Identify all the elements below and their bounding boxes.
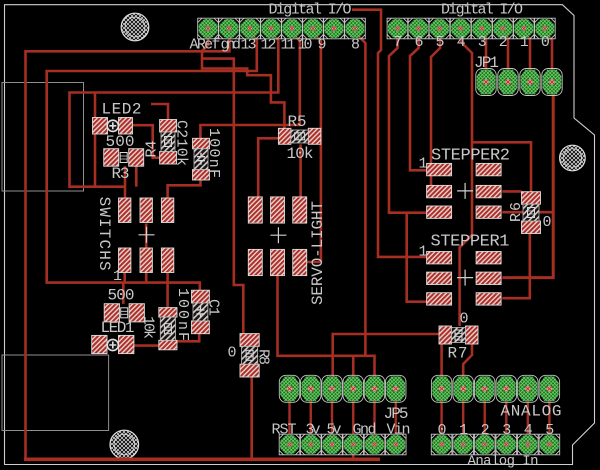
wire ANALOG col 4 upper-lower [505, 400, 507, 434]
resistor R3 [104, 149, 144, 167]
svg-text:11: 11 [281, 37, 296, 54]
svg-text:STEPPER1: STEPPER1 [431, 233, 510, 252]
wire pad1 to JP1-3 [524, 33, 530, 70]
pad analog A0 lower [431, 434, 452, 455]
svg-text:5: 5 [545, 422, 554, 439]
wire R5 padR to servo r1c3 [299, 144, 302, 197]
pad analog A5 lower [539, 434, 560, 455]
wire JP5 col 2 upper-lower [310, 400, 312, 434]
pad JP5 Gnd1 upper [343, 375, 363, 402]
servo-light JP pads [248, 197, 306, 276]
wire branch via LED2 pad [94, 93, 97, 187]
svg-text:12: 12 [261, 37, 277, 54]
pad digital 1 [514, 18, 535, 39]
svg-text:R4: R4 [144, 141, 161, 158]
svg-text:C1: C1 [205, 299, 222, 316]
svg-text:3: 3 [502, 422, 511, 439]
svg-text:LED2: LED2 [102, 101, 142, 119]
pad analog A4 upper [518, 375, 538, 402]
wire JP5 col 4 upper-lower [352, 400, 354, 434]
pad JP5 Vin upper [386, 375, 406, 402]
stepper2 origin cross [457, 183, 473, 199]
wire JP5 col 1 upper-lower [288, 400, 290, 434]
pad digital 3 [471, 18, 492, 39]
svg-text:1: 1 [419, 156, 428, 173]
switches SW pads [119, 198, 174, 273]
svg-text:ARef: ARef [190, 37, 221, 54]
pad digital 6 [408, 18, 429, 39]
svg-text:9: 9 [318, 37, 327, 54]
mounting hole right [560, 145, 586, 171]
wire pad4 center column to R7 [460, 33, 472, 326]
pad analog A1 lower [453, 434, 474, 455]
wire switch c2 vertical [145, 224, 148, 249]
wire R5 padL to servo r1c1 [258, 138, 278, 197]
pad analog A3 lower [496, 434, 517, 455]
svg-text:SWITCHS: SWITCHS [95, 197, 113, 271]
wire LED1 to 10k bottom [134, 344, 159, 347]
resistor R6 [522, 192, 541, 234]
pad ARef [198, 18, 219, 39]
svg-text:RST: RST [272, 422, 297, 439]
wire switch r2c3 to 10k top [166, 272, 169, 308]
svg-text:1: 1 [520, 34, 529, 51]
pad analog A2 lower [474, 434, 495, 455]
svg-text:2: 2 [481, 422, 490, 439]
wire ANALOG col 5 upper-lower [527, 400, 529, 434]
pad JP5 Vin lower [385, 434, 406, 455]
pad 12 [261, 18, 282, 39]
power jack outline [2, 83, 84, 192]
wire pad7 to stepper2 r3 [389, 33, 427, 213]
pad JP5 5v upper [322, 375, 342, 402]
pad JP5 Gnd1 lower [343, 434, 364, 455]
pad analog A2 upper [475, 375, 495, 402]
pad analog A5 upper [539, 375, 559, 402]
wire R7 padL to analog0 [440, 343, 443, 402]
wire branch to R6 top [472, 142, 531, 191]
wire pad11 to C2 top [200, 33, 299, 138]
svg-text:500: 500 [106, 133, 135, 151]
mounting hole bottom-left [110, 430, 139, 459]
wire pad12 loop to switch [70, 33, 279, 187]
pad analog A1 upper [453, 375, 473, 402]
svg-text:3v: 3v [306, 422, 321, 439]
svg-text:ANALOG: ANALOG [501, 403, 562, 421]
pad digital 0 [535, 18, 556, 39]
wire staircase branch to R8 top [202, 59, 243, 334]
pad 11 [282, 18, 303, 39]
pad JP1-3 [520, 69, 540, 96]
svg-text:4: 4 [457, 34, 466, 51]
wire pad8 long vertical [355, 33, 365, 356]
wire top edge trace to stepper1 r1 [352, 10, 427, 257]
pad 8 [345, 18, 366, 39]
svg-text:0: 0 [541, 34, 550, 51]
svg-text:0: 0 [438, 422, 447, 439]
svg-text:0: 0 [543, 214, 552, 231]
svg-text:STEPPER2: STEPPER2 [431, 147, 510, 166]
pad 9 [324, 18, 345, 39]
svg-text:R6: R6 [508, 202, 525, 222]
wire stepper2 r3 right link [502, 211, 553, 214]
wire R8 bottom to gnd rail [250, 377, 253, 458]
svg-text:6: 6 [415, 34, 424, 51]
pad JP5 RST lower [279, 434, 300, 455]
pad digital 2 [493, 18, 514, 39]
pad 13 [240, 18, 261, 39]
svg-text:Digital I/O: Digital I/O [269, 2, 352, 19]
svg-text:13: 13 [241, 37, 257, 54]
svg-text:SERVO-LIGHT: SERVO-LIGHT [309, 201, 327, 305]
wire C2 bottom to switch r1c3 [168, 180, 201, 198]
servo origin cross [270, 227, 286, 243]
wire JP1-4 down right side to stepper1 r2 [502, 93, 553, 278]
usb connector outline [2, 355, 109, 431]
svg-text:JP5: JP5 [384, 405, 409, 423]
svg-text:gnd: gnd [221, 37, 242, 54]
svg-text:5: 5 [436, 34, 445, 51]
stepper2 U pads [427, 163, 502, 218]
wire ANALOG col 2 upper-lower [462, 400, 464, 434]
wire branch to R2 pad [122, 283, 125, 304]
wire LED2 to R4 bottom [133, 125, 160, 158]
pad analog A0 upper [431, 375, 451, 402]
pad JP1-2 [498, 69, 518, 96]
wire pad3 to JP1-1 [482, 33, 486, 70]
wire R4 top stub [151, 104, 168, 121]
LED D2 [93, 118, 133, 135]
wire R3 padR down [135, 166, 138, 187]
svg-text:Gnd: Gnd [353, 422, 377, 439]
svg-text:4: 4 [524, 422, 533, 439]
capacitor C1 [192, 290, 210, 333]
svg-text:0: 0 [228, 345, 237, 362]
wire switch r2c1 down [123, 272, 126, 283]
stepper1 U pads [427, 252, 502, 306]
wire switch r2c2 down [145, 272, 148, 283]
LED D1 [92, 335, 134, 353]
svg-text:Digital I/O: Digital I/O [441, 2, 523, 19]
svg-text:10k: 10k [140, 316, 157, 339]
svg-text:100nF: 100nF [205, 128, 222, 178]
wire bottom gnd rail [24, 457, 380, 461]
wire JP5 col 5 upper-lower [373, 400, 375, 434]
pad digital 7 [387, 18, 408, 39]
wire pad13 long loop to C1 [47, 33, 257, 290]
resistor R8 [240, 334, 259, 377]
wire ANALOG col 1 upper-lower [440, 400, 442, 434]
pad JP5 Gnd2 upper [364, 375, 384, 402]
wire gnd branch JP5 [352, 356, 355, 402]
svg-text:LED1: LED1 [101, 319, 135, 337]
svg-text:10k: 10k [287, 145, 314, 163]
svg-text:2: 2 [499, 34, 508, 51]
svg-text:R8: R8 [255, 349, 272, 365]
pad analog A3 upper [496, 375, 516, 402]
svg-text:R5: R5 [288, 113, 307, 131]
svg-text:JP1: JP1 [474, 54, 499, 72]
wire JP5 col 3 upper-lower [331, 400, 333, 434]
wire pad0 to JP1-4 [545, 33, 552, 70]
pad JP5 3v upper [301, 375, 321, 402]
wire pad5 to stepper2 r2 [427, 33, 440, 191]
svg-text:3: 3 [478, 34, 487, 51]
wire R7 padR to analog1 [463, 343, 472, 402]
pad JP5 RST upper [279, 375, 299, 402]
wire pad10 to servo [306, 33, 321, 262]
wire stepper2 r2 to R6 [502, 190, 521, 193]
resistor R5 [278, 128, 320, 144]
stepper1 origin cross [457, 270, 473, 286]
pad 10 [303, 18, 324, 39]
pad JP5 5v lower [322, 434, 343, 455]
wire R7 to JP5 5v [333, 334, 439, 402]
capacitor C2 [193, 138, 210, 180]
wire branch to stepper1 r3 [407, 213, 427, 302]
svg-text:1: 1 [459, 422, 468, 439]
wire ARef staircase to R5 [202, 33, 284, 128]
mounting hole top-left [121, 13, 149, 41]
switches origin cross [139, 227, 155, 243]
resistor R4 [160, 120, 177, 165]
wire C1 bottom to 10k bottom [177, 334, 199, 342]
wire pad6 to stepper2 r1 [410, 33, 427, 170]
pad JP5 Gnd2 lower [364, 434, 385, 455]
svg-text:R7: R7 [448, 345, 468, 363]
pad JP1-4 [542, 69, 562, 96]
pad digital 5 [429, 18, 450, 39]
pad gnd [219, 18, 240, 39]
svg-text:1: 1 [419, 244, 428, 261]
wire ANALOG col 3 upper-lower [484, 400, 486, 434]
wire gnd pad to left rail [26, 33, 230, 458]
wire pad2 to JP1-2 [503, 33, 508, 70]
wire JP5 col 6 upper-lower [395, 400, 397, 434]
wire R3 to switch pad1 [124, 166, 127, 199]
pad analog A4 lower [518, 434, 539, 455]
wire servo gnd to JP5 gnd2 [278, 276, 375, 402]
svg-text:10: 10 [298, 37, 313, 54]
pad digital 4 [450, 18, 471, 39]
resistor 10k [159, 308, 177, 350]
svg-text:Vin: Vin [387, 422, 411, 439]
svg-text:Analog In: Analog In [468, 454, 539, 470]
svg-text:8: 8 [351, 37, 360, 54]
wire ANALOG col 6 upper-lower [548, 400, 550, 434]
pad JP1-1 [476, 69, 496, 96]
svg-text:R3: R3 [112, 165, 130, 183]
resistor R2 500 [104, 304, 144, 322]
svg-text:500: 500 [108, 287, 135, 305]
svg-text:100nF: 100nF [174, 288, 191, 341]
wire stepper1 r3 to R6 bottom [502, 229, 530, 298]
pad JP5 3v lower [300, 434, 321, 455]
svg-text:5v: 5v [327, 422, 342, 439]
wire gnd stub to rail [352, 453, 354, 459]
svg-text:1: 1 [113, 268, 122, 285]
svg-text:C210k: C210k [173, 120, 190, 166]
svg-text:0: 0 [460, 311, 469, 328]
resistor R7 [439, 326, 478, 344]
svg-text:7: 7 [393, 34, 402, 51]
